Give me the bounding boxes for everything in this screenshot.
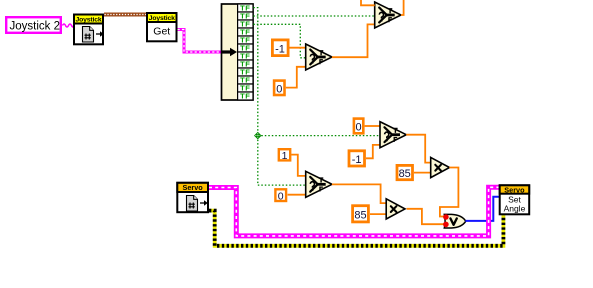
wire 0 to select4 T: [365, 125, 380, 127]
constant 0 (middle): [354, 119, 363, 134]
svg-text:0: 0: [276, 83, 282, 95]
wire: thick magenta servo refnum Servo to Set Angle: [209, 187, 499, 236]
op: select S4: [380, 122, 406, 148]
wire into select1 T from top edge: [361, 0, 375, 5]
op: Or gate: [444, 214, 466, 228]
constant -1 (middle): [349, 151, 365, 166]
wire -1 to select2 T: [290, 47, 306, 49]
wire: brown cluster wire between Joystick nodes: [104, 13, 146, 17]
wire M1 out to Or gate upper input: [440, 168, 459, 217]
svg-text:Servo: Servo: [504, 185, 525, 194]
op: multiply M1: [431, 157, 450, 177]
wire: green boolean row2 to select1: [253, 15, 374, 17]
wire -1 to select4 F: [366, 145, 380, 158]
svg-text:TF: TF: [240, 92, 250, 101]
wire: green boolean branch junction to select4: [258, 135, 380, 137]
op: select S1 (top): [375, 2, 401, 28]
svg-text:Angle: Angle: [504, 204, 526, 214]
svg-text:0: 0: [356, 122, 362, 134]
op: multiply M2: [386, 199, 405, 219]
coercion dot lower: [443, 222, 449, 228]
node: Servo open: [177, 183, 208, 212]
constant 1: [279, 149, 290, 162]
constant 0 (bottom): [275, 189, 286, 202]
node junction: [254, 132, 262, 140]
wire select3 out to multiply M2: [332, 184, 386, 203]
svg-text:-1: -1: [275, 43, 285, 55]
structure: cluster-to-array with 12 TF boolean outputs: [222, 4, 254, 101]
svg-text:Joystick: Joystick: [149, 15, 175, 22]
constant 0 (top): [274, 81, 284, 96]
coercion dot upper: [443, 214, 449, 220]
wire 0 to select3 F: [288, 194, 306, 196]
svg-text:Get: Get: [153, 25, 170, 37]
svg-text:85: 85: [354, 210, 366, 222]
svg-text:Joystick 2: Joystick 2: [10, 21, 61, 33]
constant -1 (top): [272, 40, 288, 56]
wire select4 out to multiply M1: [406, 135, 431, 163]
wire 0 to select2 F: [286, 67, 306, 88]
wire select1 out to top edge: [401, 0, 404, 15]
node: Joystick Get: [147, 13, 177, 41]
svg-text:1: 1: [282, 150, 288, 162]
svg-text:Servo: Servo: [182, 183, 203, 192]
wire: error cluster Servo to Set Angle: [209, 211, 503, 246]
wire: magenta dashed from Get to cluster-to-array: [178, 30, 223, 53]
constant 85 (upper): [397, 165, 413, 180]
wire M2 out to Or gate lower input: [407, 209, 445, 224]
node: Joystick open (icon #→): [74, 15, 104, 45]
wire 85 to M1: [414, 172, 431, 174]
wire select2 out to select1 F: [332, 24, 375, 57]
node: Servo Set Angle: [500, 185, 530, 214]
svg-text:85: 85: [399, 168, 411, 180]
wire 85 to M2: [370, 213, 386, 215]
wire: green boolean row1 down to junction and select3: [253, 8, 305, 186]
wire: green boolean row3 to select2: [253, 24, 305, 58]
wire: blue from Or gate to Set Angle: [465, 197, 499, 221]
op: select S3: [306, 171, 332, 197]
svg-text:0: 0: [278, 190, 284, 202]
svg-text:Joystick: Joystick: [75, 17, 101, 24]
device name constant "Joystick 2": [6, 17, 61, 33]
svg-text:-1: -1: [352, 154, 362, 166]
wire 1 to select3 T: [291, 155, 306, 176]
constant 85 (lower): [353, 206, 369, 222]
op: select S2: [306, 44, 332, 70]
wire: wavy magenta from Joystick 2 to open node: [63, 24, 74, 27]
